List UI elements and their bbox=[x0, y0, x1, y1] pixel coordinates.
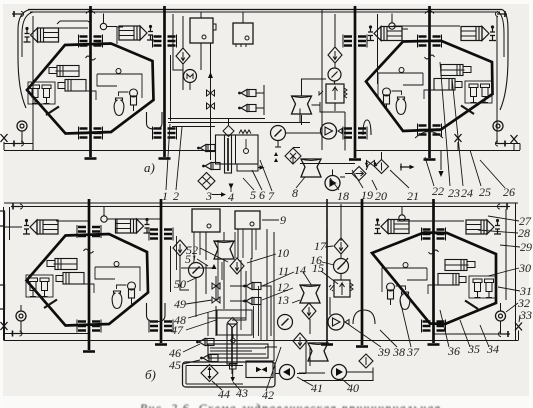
svg-text:17: 17 bbox=[314, 239, 327, 253]
top rail bbox=[4, 202, 518, 204]
top rail double line bbox=[28, 9, 502, 11]
shaft 5 (axle b-left) bbox=[88, 199, 91, 350]
stacked bowties bbox=[207, 90, 215, 96]
svg-text:9: 9 bbox=[280, 213, 286, 227]
left small boxes bbox=[0, 211, 5, 226]
couplings shaft3 bbox=[343, 35, 367, 48]
connection wires center bbox=[264, 109, 382, 178]
bellows tank 8 bbox=[301, 159, 321, 177]
svg-text:50: 50 bbox=[174, 277, 186, 291]
svg-text:42: 42 bbox=[262, 388, 274, 402]
cylinder A2 left bbox=[367, 25, 402, 40]
shaft 7 (inter b-right) bbox=[361, 199, 364, 345]
nozzle 46 bbox=[196, 339, 214, 346]
svg-text:30: 30 bbox=[518, 261, 531, 275]
shaft 8 foot bbox=[428, 343, 440, 346]
hexagon left (wheel reducer outline) bbox=[27, 44, 154, 134]
wire pump40 to diamond bbox=[302, 368, 373, 381]
svg-text:39: 39 bbox=[377, 345, 390, 359]
wire bundle b center bbox=[177, 232, 259, 338]
small filter diamond 48 bbox=[228, 318, 238, 328]
svg-text:14: 14 bbox=[294, 263, 306, 277]
nozzle lower bbox=[202, 163, 220, 170]
svg-text:3: 3 bbox=[205, 189, 212, 203]
rail end left (b) bbox=[11, 204, 23, 210]
svg-text:47: 47 bbox=[171, 323, 184, 337]
pump open circle bbox=[321, 123, 337, 139]
small arrows below gauge bbox=[274, 152, 278, 162]
svg-text:26: 26 bbox=[503, 185, 515, 199]
filter diamond on center column bbox=[328, 47, 342, 63]
couplings bbox=[77, 225, 101, 238]
pump filled 18feed bbox=[325, 176, 340, 191]
brake pointer under A2 bbox=[400, 164, 411, 171]
filter 17 bbox=[334, 238, 348, 254]
svg-text:40: 40 bbox=[347, 381, 359, 395]
filter 45 branch bbox=[293, 333, 307, 349]
svg-text:10: 10 bbox=[277, 246, 289, 260]
tank 9a bbox=[192, 209, 220, 232]
shaft 3 bbox=[354, 6, 357, 158]
svg-text:12: 12 bbox=[277, 280, 289, 294]
bowtie near 19 bbox=[367, 161, 375, 167]
pump 40 bbox=[332, 365, 347, 380]
svg-text:5: 5 bbox=[250, 188, 256, 202]
svg-text:45: 45 bbox=[169, 358, 181, 372]
couplings shaft2 bbox=[153, 35, 177, 48]
leader lines bbox=[166, 124, 305, 195]
svg-text:37: 37 bbox=[406, 345, 420, 359]
label row between sections bbox=[162, 62, 515, 204]
center pipe b bbox=[326, 199, 328, 343]
filter right of pump 40 bbox=[359, 354, 373, 368]
svg-text:51: 51 bbox=[185, 252, 197, 266]
left vertical feed line bbox=[32, 16, 34, 150]
svg-text:2: 2 bbox=[173, 189, 179, 203]
pump 41 bbox=[280, 365, 295, 380]
valve 43 with down arrow bbox=[230, 364, 237, 383]
extra b wires bbox=[194, 229, 261, 340]
bottom-left wheel ring bbox=[16, 311, 26, 321]
cylinder feeds bbox=[56, 219, 464, 221]
manifold cluster (valve block 1-4) bbox=[216, 118, 265, 173]
small circle right assembly bbox=[389, 23, 395, 29]
shaft 7 foot bbox=[356, 345, 368, 348]
left drain: X valve bbox=[1, 134, 8, 142]
cylinder feed lines bbox=[57, 21, 460, 28]
bellows tank 10 bbox=[214, 241, 234, 259]
drain circuit outer loop bbox=[183, 362, 276, 387]
svg-text:1: 1 bbox=[162, 189, 168, 203]
shaft 4 foot bbox=[424, 158, 436, 161]
shaft 1 bbox=[89, 6, 92, 157]
hexagon left bbox=[27, 234, 149, 326]
svg-text:35: 35 bbox=[467, 342, 480, 356]
shaft 2 bbox=[163, 6, 166, 157]
svg-text:33: 33 bbox=[519, 308, 532, 322]
filter diamond 7 bbox=[285, 148, 301, 164]
svg-text:43: 43 bbox=[236, 386, 248, 400]
gauge 16 bbox=[334, 259, 349, 274]
cylinder A1 right (mirrored, cone right) bbox=[119, 25, 154, 40]
svg-text:16: 16 bbox=[310, 253, 322, 267]
arch over A2 bottom coupling bbox=[415, 132, 443, 139]
center pipe b foot bbox=[321, 343, 333, 346]
filter (left branch) bbox=[173, 240, 187, 256]
leader curve a bbox=[170, 55, 172, 121]
shaft 4 bbox=[428, 6, 431, 158]
right column labels bbox=[478, 214, 532, 322]
couplings shaft1 bbox=[79, 35, 103, 48]
svg-text:36: 36 bbox=[447, 344, 460, 358]
relief valve 15 bbox=[329, 280, 353, 297]
shaft 6 (inter b-left) bbox=[160, 199, 163, 343]
wire pump41 to loop bbox=[275, 341, 306, 374]
bottom-right short rail bbox=[434, 333, 508, 335]
bellows tank 37 bbox=[308, 343, 328, 361]
svg-text:6: 6 bbox=[259, 188, 265, 202]
thin center vertical bbox=[321, 10, 323, 150]
nozzle pair right bbox=[238, 90, 256, 97]
shaft 6 foot bbox=[155, 343, 167, 346]
gauge M bbox=[184, 70, 197, 83]
bottom-right drain X valve bbox=[515, 323, 522, 331]
cylinder A2 right bbox=[461, 25, 496, 40]
svg-text:49: 49 bbox=[174, 297, 186, 311]
rail end right bbox=[496, 11, 508, 17]
svg-text:28: 28 bbox=[518, 226, 530, 240]
horizontal bus lines bbox=[168, 119, 310, 127]
gauge with needle bbox=[271, 126, 286, 141]
side labels B bbox=[169, 213, 499, 402]
hexagon right (mirrored) bbox=[366, 41, 493, 131]
central tank box 2 bbox=[233, 23, 253, 47]
svg-text:7: 7 bbox=[268, 189, 275, 203]
left ring bbox=[17, 121, 27, 131]
right vertical feed line bbox=[496, 16, 498, 143]
filter below 13 bbox=[302, 303, 316, 319]
filter under tank1 bbox=[176, 48, 190, 64]
svg-text:22: 22 bbox=[432, 184, 444, 198]
hexagon right bbox=[372, 233, 496, 325]
left lower rails bbox=[4, 143, 33, 145]
svg-text:24: 24 bbox=[461, 186, 473, 200]
check valves 49 bbox=[212, 264, 217, 269]
gauge 50 bbox=[189, 263, 204, 278]
couplings shaft4 bbox=[418, 35, 442, 48]
nozzle 45 bbox=[200, 355, 218, 362]
svg-text:а): а) bbox=[144, 160, 155, 175]
svg-text:20: 20 bbox=[375, 189, 387, 203]
bottom-right wheel ring bbox=[496, 311, 506, 321]
bottom-left drain X valve bbox=[1, 322, 8, 330]
nozzle left of manifold bbox=[197, 145, 215, 152]
pump 39 bbox=[328, 314, 344, 330]
left boundary vertical (b) bbox=[3, 207, 5, 341]
injectors 11 and 12 bbox=[243, 283, 261, 290]
svg-text:38: 38 bbox=[392, 345, 405, 359]
bell accumulator bbox=[363, 120, 371, 135]
svg-text:18: 18 bbox=[337, 189, 349, 203]
drain valve mid-right bbox=[455, 134, 462, 142]
svg-text:29: 29 bbox=[520, 240, 532, 254]
svg-text:34: 34 bbox=[486, 342, 499, 356]
drain inner box bbox=[246, 361, 273, 378]
svg-text:44: 44 bbox=[218, 387, 230, 401]
right drain X bbox=[511, 135, 518, 143]
wires tank area bbox=[173, 12, 243, 90]
filter diamond lower bbox=[198, 173, 215, 190]
bottom-left short rail bbox=[5, 333, 89, 335]
svg-text:13: 13 bbox=[277, 293, 289, 307]
shaft 1 foot bbox=[85, 157, 97, 160]
cylinders bbox=[23, 219, 58, 234]
gauge 38 bbox=[278, 315, 293, 330]
svg-text:21: 21 bbox=[407, 189, 419, 203]
bellows tank 13 bbox=[300, 285, 320, 303]
filter 52 bbox=[230, 258, 244, 274]
svg-text:25: 25 bbox=[479, 185, 491, 199]
svg-text:41: 41 bbox=[311, 381, 323, 395]
arrow in inner box bbox=[256, 367, 267, 372]
level gauge cylinder 43 bbox=[227, 324, 237, 364]
right body contour bbox=[500, 10, 508, 111]
svg-text:23: 23 bbox=[448, 186, 460, 200]
relief valve group with bellows tank bbox=[292, 14, 378, 151]
filter 44 diamond bbox=[201, 365, 218, 382]
vertical line with check arrow bbox=[210, 43, 212, 160]
hexagon right interior bbox=[378, 55, 492, 115]
left body contour bbox=[18, 10, 30, 109]
pump housing box bbox=[217, 310, 252, 335]
shaft 8 (axle b-right) bbox=[432, 199, 435, 343]
central tank box 1 bbox=[190, 18, 216, 43]
rail end right (b) bbox=[498, 204, 510, 210]
arch contour right of A3 bbox=[170, 246, 172, 292]
svg-text:б): б) bbox=[145, 367, 156, 382]
diamond 20 bbox=[375, 160, 389, 174]
cylinder A1 left bbox=[24, 27, 59, 42]
svg-text:8: 8 bbox=[292, 186, 298, 200]
shaft 2 foot bbox=[159, 157, 171, 160]
bell housing over shaft 7 bbox=[353, 310, 375, 324]
shaft 3 foot bbox=[349, 158, 361, 161]
svg-text:4: 4 bbox=[228, 190, 234, 204]
rail end left bbox=[12, 11, 24, 17]
shaft 5 foot bbox=[83, 350, 95, 353]
central wires B bbox=[206, 203, 341, 374]
right boundary vertical (b) bbox=[506, 203, 516, 341]
svg-text:Рис. 2.6. Схема гидравлическая: Рис. 2.6. Схема гидравлическая принципиа… bbox=[139, 403, 440, 408]
bottom long rail bbox=[4, 340, 518, 342]
hexagon left interior bbox=[28, 56, 142, 116]
oil reservoir 42 bbox=[208, 334, 268, 358]
small circle on top line left assembly bbox=[100, 23, 106, 29]
svg-text:11: 11 bbox=[278, 264, 289, 278]
diamond 18 bbox=[352, 167, 366, 181]
right ring bbox=[493, 121, 503, 131]
